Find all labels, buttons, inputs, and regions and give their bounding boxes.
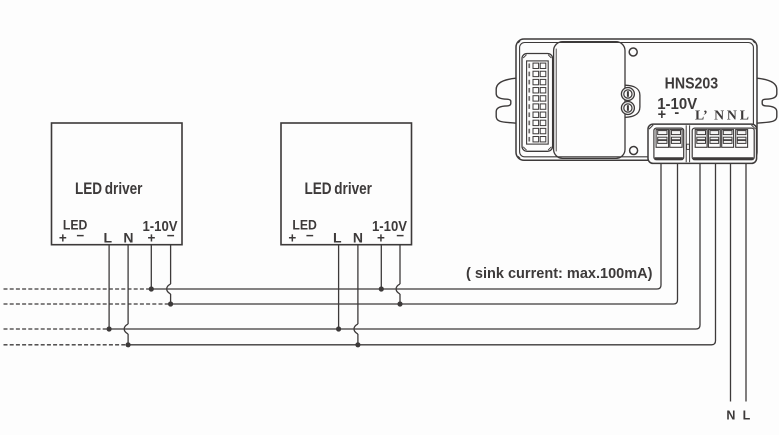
svg-text:+: + [658,107,666,123]
svg-text:−: − [306,228,314,243]
svg-text:−: − [167,228,175,243]
svg-text:+: + [148,230,156,245]
svg-text:N: N [353,229,363,245]
svg-text:N: N [727,107,737,122]
svg-text:N: N [123,229,133,245]
svg-text:−: − [396,228,404,243]
svg-text:+: + [377,230,385,245]
svg-text:HNS203: HNS203 [665,76,719,93]
svg-text:N: N [726,409,735,423]
svg-text:LED driver: LED driver [75,179,143,198]
svg-text:L: L [333,229,342,245]
svg-text:−: − [76,228,84,243]
svg-text:L: L [740,107,749,122]
svg-text:L: L [104,229,113,245]
svg-text:N: N [714,107,724,122]
svg-text:+: + [288,230,296,245]
svg-text:LED driver: LED driver [304,179,372,198]
svg-text:+: + [59,230,67,245]
svg-text:-: - [674,105,679,121]
svg-text:L’: L’ [695,107,708,122]
svg-text:L: L [743,409,751,423]
svg-text:( sink current: max.100mA): ( sink current: max.100mA) [466,265,653,282]
